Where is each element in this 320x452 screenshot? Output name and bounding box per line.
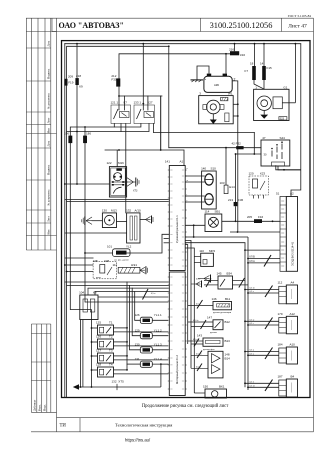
- svg-text:Лист: Лист: [48, 117, 51, 124]
- wire: F30 to relay K7: [118, 87, 120, 110]
- svg-text:SB1: SB1: [215, 209, 221, 213]
- svg-text:0,5 кб: 0,5 кб: [196, 354, 202, 356]
- svg-text:W1: W1: [228, 92, 233, 96]
- wire: bus pair y199.5: [65, 199, 169, 201]
- wire: right feed down to ECU: [291, 44, 301, 197]
- relay T4: [96, 363, 114, 377]
- svg-text:126: 126: [96, 335, 101, 339]
- wire: y233 feed: [65, 232, 127, 234]
- wire: bus pair y201.5: [67, 201, 169, 203]
- svg-text:датчик: датчик: [210, 332, 217, 334]
- svg-text:0,5 з: 0,5 з: [196, 304, 200, 306]
- svg-text:НЭ1: НЭ1: [131, 263, 137, 267]
- svg-text:187: 187: [278, 375, 283, 379]
- svg-text:133 1: 133 1: [134, 101, 142, 105]
- svg-text:К23: К23: [260, 172, 265, 176]
- fuse F15: [260, 62, 272, 81]
- ground at M16: [127, 178, 139, 193]
- svg-text:Подпись: Подпись: [48, 68, 51, 79]
- wire: relay K7 bottom drops: [113, 124, 115, 128]
- wire: YL2 left: [85, 252, 113, 254]
- wire: K28 left feeds: [64, 264, 93, 272]
- wire: battery to generator B+: [232, 81, 239, 232]
- wire: connector to S10: [186, 176, 205, 202]
- svg-text:А4: А4: [291, 281, 295, 285]
- svg-text:141: 141: [165, 159, 170, 163]
- sensor B13: [188, 334, 230, 351]
- wire: connector left stubs: [126, 234, 169, 253]
- svg-text:150: 150: [203, 385, 208, 389]
- svg-text:ГОСТ 3.1105-84: ГОСТ 3.1105-84: [288, 14, 312, 18]
- starter 1: [254, 85, 296, 120]
- svg-text:51: 51: [276, 192, 280, 196]
- svg-text:А12: А12: [290, 312, 296, 316]
- ground at A10: [146, 216, 154, 224]
- svg-text:Т1: Т1: [109, 321, 113, 325]
- title block texts: [59, 14, 312, 429]
- svg-text:47: 47: [262, 136, 266, 140]
- svg-text:В14: В14: [225, 357, 231, 361]
- svg-text:0,5 к: 0,5 к: [196, 279, 200, 281]
- sensor B11: [188, 297, 232, 314]
- svg-text:126: 126: [135, 313, 140, 317]
- svg-text:0,5 г: 0,5 г: [250, 323, 254, 325]
- svg-text:218: 218: [76, 74, 81, 78]
- connector A4: [244, 281, 297, 304]
- svg-text:К16: К16: [240, 53, 245, 57]
- relay T2: [96, 335, 114, 349]
- heater A10: [126, 208, 141, 243]
- svg-text:с: с: [187, 200, 188, 202]
- svg-text:138: 138: [93, 259, 98, 263]
- svg-text:F19: F19: [68, 80, 74, 84]
- wire: y154 into switch: [236, 153, 262, 155]
- wire: y288.1 bus: [88, 287, 168, 289]
- svg-text:184: 184: [278, 343, 283, 347]
- sensor MP2: [194, 249, 215, 267]
- frame bottom line: [31, 431, 314, 433]
- svg-text:F16: F16: [258, 215, 264, 219]
- lamp SB1: [205, 209, 222, 231]
- svg-text:110: 110: [199, 249, 204, 253]
- svg-text:127: 127: [96, 349, 101, 353]
- svg-text:18: 18: [250, 62, 254, 66]
- frame main left line: [56, 18, 58, 432]
- svg-text:104: 104: [79, 291, 84, 295]
- svg-text:А1: А1: [180, 159, 184, 163]
- wire: M16 left feed: [65, 183, 110, 185]
- svg-text:3100.25100.12056: 3100.25100.12056: [210, 21, 273, 30]
- svg-text:Т4: Т4: [109, 363, 113, 367]
- wire: y96 loop: [119, 95, 162, 97]
- right row body micro text: [291, 289, 293, 393]
- svg-text:0,5 ж: 0,5 ж: [250, 320, 255, 322]
- injector YL1.4: [135, 357, 169, 367]
- sensor B12: [188, 315, 230, 334]
- fuse K9: [75, 74, 83, 89]
- wire: KL lines to ECU: [248, 258, 280, 260]
- sensor BK1: [194, 385, 226, 398]
- svg-text:132: 132: [112, 379, 117, 383]
- svg-text:213: 213: [228, 198, 233, 202]
- left strip verticals: [25, 18, 27, 250]
- svg-text:Подл.: Подл.: [44, 404, 47, 411]
- wire: y282 bus: [65, 281, 169, 283]
- svg-text:датчик фаз: датчик фаз: [203, 348, 214, 351]
- svg-text:https://tns.au/: https://tns.au/: [125, 438, 151, 443]
- svg-text:К7: К7: [124, 101, 128, 105]
- wire: middle bundle verticals: [126, 282, 128, 370]
- ground fans below MP2: [191, 275, 211, 288]
- wire: connector to SB1 and down: [186, 221, 281, 238]
- svg-text:121 1: 121 1: [111, 101, 119, 105]
- svg-text:ТИ: ТИ: [60, 423, 67, 428]
- svg-text:ХТ5: ХТ5: [118, 379, 124, 383]
- svg-text:А10: А10: [290, 343, 296, 347]
- wire: bottom ground bus: [73, 363, 162, 390]
- svg-text:Лист 47: Лист 47: [288, 24, 307, 30]
- svg-text:114: 114: [205, 209, 210, 213]
- ground at M13 (left): [82, 217, 92, 226]
- svg-text:0,5 вг: 0,5 вг: [196, 367, 201, 369]
- wire: y147.7 F32 feed: [169, 147, 236, 149]
- svg-text:Дубликат: Дубликат: [34, 399, 37, 411]
- svg-text:0,5 зп: 0,5 зп: [250, 386, 255, 388]
- fuse F36: [228, 153, 244, 222]
- svg-text:Подпись: Подпись: [48, 164, 51, 175]
- svg-text:Лист: Лист: [48, 215, 51, 222]
- fuse F7: [244, 62, 255, 81]
- svg-text:В13: В13: [225, 339, 231, 343]
- svg-text:№ документа: № документа: [48, 189, 51, 206]
- wire: y285.4 bus: [67, 284, 169, 286]
- generator 3: [199, 92, 234, 124]
- tiny wire labels: [151, 168, 255, 387]
- frame right line: [313, 18, 315, 432]
- sensor B34: [204, 272, 248, 289]
- svg-text:Дата: Дата: [48, 140, 51, 146]
- svg-text:101: 101: [107, 245, 112, 249]
- frame top line: [26, 17, 314, 19]
- wire: y258 bus: [65, 257, 93, 259]
- heater element HЭ1: [113, 263, 140, 273]
- ground at HЭ1: [140, 266, 148, 274]
- svg-text:Изм: Изм: [48, 128, 51, 133]
- svg-text:Технологическая инструкция: Технологическая инструкция: [115, 422, 173, 427]
- wire: y150 bus to connector: [105, 150, 184, 166]
- svg-text:146: 146: [212, 297, 217, 301]
- footer row: [57, 417, 314, 419]
- wire: K7 pin down to A10 heater: [125, 124, 127, 213]
- title row cells: [51, 18, 53, 31]
- svg-text:S23: S23: [280, 117, 285, 120]
- svg-text:S10: S10: [211, 167, 217, 171]
- svg-text:ОАО "АВТОВАЗ": ОАО "АВТОВАЗ": [59, 21, 124, 30]
- connector B4: [244, 375, 297, 398]
- svg-text:209: 209: [68, 75, 73, 79]
- wire: A10 ground link: [140, 219, 146, 221]
- fuse F30: [111, 74, 120, 86]
- svg-text:ЭСУД ВАЗ-21114-41: ЭСУД ВАЗ-21114-41: [291, 241, 295, 266]
- svg-text:G1: G1: [283, 85, 287, 89]
- wire: y291.5 bus: [95, 291, 168, 293]
- left strip rotated labels: [34, 40, 51, 411]
- fuse F32: [232, 142, 244, 150]
- wire: upper bus y127: [70, 124, 141, 136]
- svg-text:ХТ3: ХТ3: [133, 190, 138, 193]
- svg-text:0,5 ч: 0,5 ч: [250, 354, 254, 356]
- svg-text:131: 131: [135, 357, 140, 361]
- component K16 fusible link: [229, 44, 245, 57]
- svg-text:реле: реле: [96, 277, 102, 279]
- svg-text:42 F32: 42 F32: [232, 142, 242, 146]
- wire: relay left feed vertical: [91, 310, 98, 388]
- svg-text:КЛ А: КЛ А: [250, 260, 256, 263]
- svg-text:132: 132: [126, 208, 131, 212]
- relay T3: [96, 349, 114, 363]
- svg-text:F30: F30: [111, 78, 117, 82]
- injector YL1.1: [135, 313, 169, 323]
- svg-text:F15: F15: [267, 66, 273, 70]
- svg-text:0,5 в: 0,5 в: [151, 293, 155, 295]
- svg-text:143: 143: [197, 334, 202, 338]
- svg-text:125: 125: [96, 321, 101, 325]
- fuse 186: [83, 132, 91, 144]
- svg-text:111: 111: [113, 263, 118, 267]
- fuse F19: [64, 75, 73, 86]
- svg-text:К27: К27: [148, 101, 153, 105]
- fuse 196: [64, 132, 72, 144]
- wire: switch bottom to right vertical: [278, 166, 301, 170]
- svg-text:Т3: Т3: [109, 349, 113, 353]
- figure border: [62, 41, 311, 398]
- wire: sensor feeders: [186, 241, 195, 394]
- wire: bus2 drop to F32 line: [168, 46, 170, 147]
- svg-text:М13: М13: [111, 208, 117, 212]
- svg-text:0,5 сб: 0,5 сб: [193, 339, 199, 341]
- svg-text:АКБ: АКБ: [214, 83, 219, 87]
- svg-text:Изм: Изм: [48, 229, 51, 234]
- wire: battery plus drop: [225, 54, 227, 74]
- svg-text:YL1.3: YL1.3: [154, 343, 162, 347]
- connector pin ticks: [168, 170, 187, 389]
- svg-text:120: 120: [249, 172, 254, 176]
- svg-text:А/10: А/10: [135, 208, 142, 212]
- wire: starter solenoid up: [294, 44, 296, 103]
- svg-text:МР2: МР2: [209, 249, 216, 253]
- svg-text:№ документа: № документа: [48, 92, 51, 109]
- wire: vertical x160.7 from y96 loop to y150 bus: [160, 96, 162, 150]
- svg-text:В34: В34: [227, 272, 233, 276]
- svg-text:К9: К9: [79, 85, 83, 89]
- svg-text:см. рис. далее: см. рис. далее: [114, 260, 130, 262]
- svg-text:В4: В4: [291, 375, 295, 379]
- svg-text:F7: F7: [244, 69, 248, 73]
- junction dots top bus: [76, 43, 255, 155]
- wire: starter fuses feed: [254, 43, 265, 90]
- wire: switch loop: [253, 133, 255, 155]
- svg-text:YL1.1: YL1.1: [154, 313, 162, 317]
- svg-text:128: 128: [96, 363, 101, 367]
- svg-text:А2: А2: [290, 192, 294, 196]
- connector A12: [244, 312, 297, 334]
- relay K27: [134, 101, 155, 124]
- svg-text:КЛ В: КЛ В: [250, 256, 256, 259]
- injector YL1.3: [135, 343, 169, 353]
- fuse F16: [247, 215, 273, 223]
- svg-text:датчик детонации: датчик детонации: [213, 312, 232, 314]
- ground at battery: [191, 66, 210, 82]
- wire: relay outputs: [114, 327, 169, 374]
- svg-text:п: п: [187, 168, 188, 170]
- wire: vertical x143.3 into K27: [142, 44, 144, 110]
- svg-text:Моторный разъем Х1.2: Моторный разъем Х1.2: [175, 355, 179, 384]
- svg-text:+: +: [205, 77, 207, 81]
- svg-text:216: 216: [229, 48, 234, 52]
- svg-text:140: 140: [201, 167, 206, 171]
- injector YL1.2: [135, 328, 169, 338]
- svg-text:Взам.: Взам.: [38, 404, 41, 411]
- wire: M16 right ground link: [124, 181, 128, 183]
- svg-text:S44: S44: [280, 136, 286, 140]
- svg-text:Е14: Е14: [229, 185, 235, 189]
- wire: x85 fuse186 drop: [84, 127, 86, 136]
- svg-text:0,5 бг: 0,5 бг: [250, 288, 255, 290]
- connector inner pin marks: [170, 170, 184, 389]
- svg-text:Продолжение рисунка см. следую: Продолжение рисунка см. следующий лист: [142, 404, 229, 409]
- wire: M13 links: [92, 220, 102, 222]
- svg-text:К28: К28: [104, 259, 109, 263]
- svg-text:Т2: Т2: [109, 335, 113, 339]
- wire: top feeds into connector region: [70, 302, 168, 310]
- svg-text:130: 130: [135, 343, 140, 347]
- svg-text:Кузовной разъем Х1.1: Кузовной разъем Х1.1: [175, 215, 179, 243]
- wire: main bus 2 top+left: [67, 46, 169, 397]
- svg-text:YL1.2: YL1.2: [154, 328, 162, 332]
- svg-text:0,5 бк: 0,5 бк: [193, 320, 198, 322]
- svg-text:YL2: YL2: [126, 245, 132, 249]
- svg-text:179: 179: [278, 312, 283, 316]
- svg-text:130: 130: [102, 208, 107, 212]
- svg-text:В11: В11: [225, 297, 230, 301]
- svg-text:0,5 с: 0,5 с: [250, 291, 254, 293]
- svg-text:Дата: Дата: [48, 40, 51, 46]
- svg-text:186: 186: [86, 132, 91, 136]
- svg-text:196: 196: [64, 132, 69, 136]
- connector A10: [244, 343, 297, 365]
- svg-text:F36: F36: [238, 198, 244, 202]
- wire: main bus 1 top+left: [65, 43, 301, 45]
- svg-text:147: 147: [207, 315, 212, 319]
- svg-text:205: 205: [247, 215, 252, 219]
- svg-text:122: 122: [107, 161, 112, 165]
- relay K23: [249, 172, 269, 199]
- svg-text:0,5 п: 0,5 п: [250, 382, 254, 384]
- wire: y53.8 secondary bus: [119, 54, 230, 79]
- svg-text:В12: В12: [225, 320, 231, 324]
- resistor E14: [220, 147, 235, 194]
- svg-text:ВК1: ВК1: [219, 385, 225, 389]
- relay K7: [111, 101, 131, 124]
- wire: x70.3 below fuse196: [69, 143, 71, 309]
- ECU pin micro labels: [281, 201, 284, 266]
- svg-text:YL1.4: YL1.4: [154, 357, 162, 361]
- module B14: [191, 351, 230, 378]
- svg-text:14: 14: [260, 62, 264, 66]
- svg-text:М16: М16: [118, 161, 124, 165]
- battery 2: [204, 74, 236, 93]
- strip cell dividers: [26, 31, 56, 33]
- svg-text:145: 145: [217, 272, 222, 276]
- wire: K27 third pin to switch line: [153, 124, 254, 133]
- relay T1: [96, 321, 114, 335]
- bottom-left table: [30, 324, 32, 412]
- svg-text:112: 112: [278, 281, 283, 285]
- svg-text:103: 103: [220, 181, 225, 185]
- wire: x77 with fuse K9: [76, 44, 78, 78]
- wire: lower bus y131.5: [67, 124, 149, 132]
- svg-text:129: 129: [135, 328, 140, 332]
